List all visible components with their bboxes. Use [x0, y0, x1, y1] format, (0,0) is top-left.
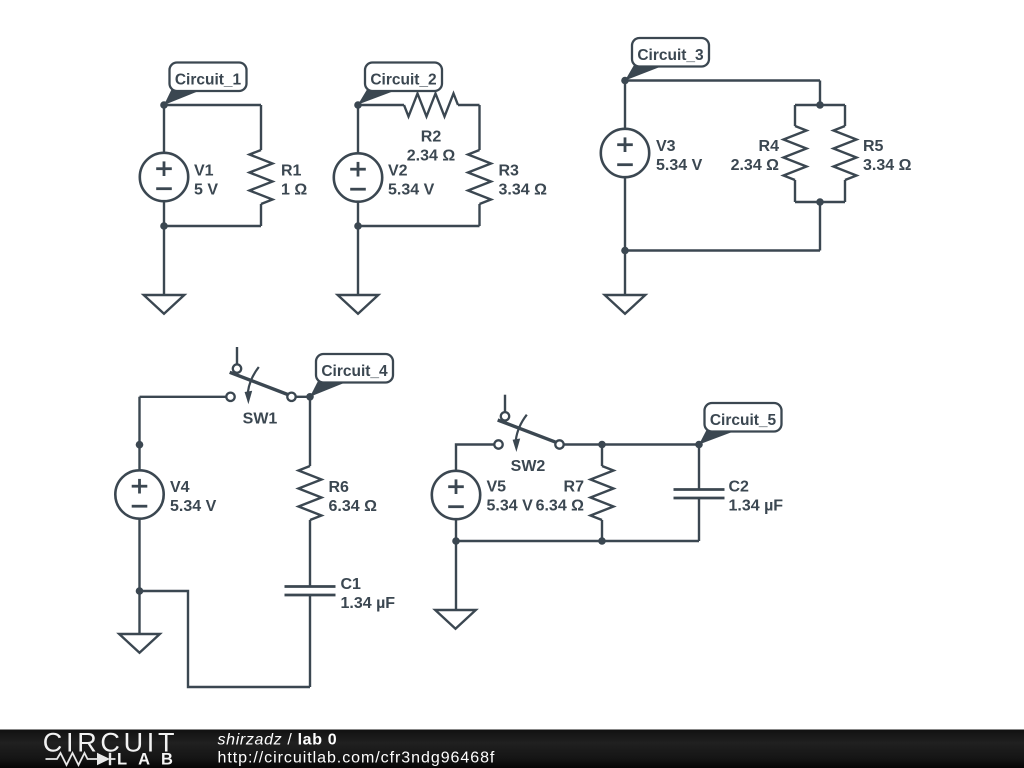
svg-text:SW2: SW2: [511, 458, 546, 475]
wire c3 R4 stub bot: [794, 180, 796, 202]
svg-text:3.34 Ω: 3.34 Ω: [863, 157, 912, 174]
svg-text:R2: R2: [421, 128, 442, 145]
wire c3 left upper: [624, 81, 626, 130]
wire c3 right riser: [819, 202, 821, 251]
svg-text:6.34 Ω: 6.34 Ω: [536, 498, 585, 515]
svg-text:3.34 Ω: 3.34 Ω: [499, 182, 548, 199]
switch SW2: [494, 395, 563, 476]
voltage source V4: [115, 470, 163, 518]
label C2 value: [729, 479, 784, 515]
wire c1 bottom: [164, 225, 261, 227]
svg-text:C2: C2: [729, 479, 750, 496]
wire c4 below C1: [309, 595, 311, 687]
wire c2 left upper: [357, 105, 359, 154]
svg-text:R4: R4: [759, 138, 780, 155]
resistor R5: [834, 126, 857, 180]
wire c5 gnd lead: [455, 541, 457, 610]
wire c3 par bottom: [795, 201, 845, 203]
wire c5 C2 lead top: [698, 445, 700, 490]
resistor R1: [250, 150, 273, 204]
svg-text:http://circuitlab.com/cfr3ndg9: http://circuitlab.com/cfr3ndg96468f: [218, 750, 496, 767]
svg-text:LAB: LAB: [117, 751, 184, 768]
wire c5 below V5: [455, 519, 457, 541]
svg-text:R3: R3: [499, 163, 520, 180]
wire c4 sw to node: [296, 396, 310, 398]
junction c5 node top right: [695, 441, 703, 449]
net label callout Circuit_5: [699, 403, 782, 445]
label R3 value: [499, 163, 548, 199]
wire c1 left lower: [163, 201, 165, 226]
label R6 value: [329, 479, 378, 515]
svg-text:Circuit_1: Circuit_1: [175, 72, 242, 89]
net label callout Circuit_1: [164, 63, 247, 106]
svg-text:V5: V5: [487, 479, 507, 496]
capacitor C1: [285, 587, 336, 596]
wire c4 R6 to C1: [309, 520, 311, 587]
wire c3 R5 stub top: [844, 105, 846, 126]
wire c1 left upper: [163, 105, 165, 153]
wire c4 bottom route: [140, 591, 311, 687]
svg-text:R5: R5: [863, 138, 884, 155]
wire c1 right lower: [260, 204, 262, 226]
wire c4 right upper: [309, 397, 311, 466]
resistor R2: [404, 94, 458, 117]
wire c5 C2 lead bot: [698, 498, 700, 541]
voltage source V1: [140, 153, 188, 201]
junction c3 node par top: [816, 101, 824, 109]
junction c5 node bot left: [452, 537, 460, 545]
label V1 value: [194, 163, 218, 199]
junction c3 node top: [621, 77, 629, 85]
ground GND4: [119, 634, 160, 653]
net label callout Circuit_4: [310, 354, 393, 397]
junction c1 node bottom: [160, 222, 168, 230]
label R4 value: [731, 138, 780, 174]
resistor R7: [591, 466, 614, 520]
wire c3 top: [625, 79, 820, 81]
svg-text:2.34 Ω: 2.34 Ω: [731, 157, 780, 174]
wire c1 right upper: [260, 105, 262, 150]
label V4 value: [170, 479, 217, 515]
svg-text:SW1: SW1: [243, 411, 278, 428]
ground GND2: [338, 295, 379, 314]
wire c5 R7 stub bot: [601, 520, 603, 541]
wire c3 gnd lead: [624, 251, 626, 296]
svg-text:C1: C1: [341, 576, 362, 593]
label V2 value: [388, 163, 435, 199]
svg-text:V2: V2: [388, 163, 408, 180]
junction c3 node bottom: [621, 247, 629, 255]
svg-text:5 V: 5 V: [194, 182, 218, 199]
svg-text:V3: V3: [656, 138, 676, 155]
wire c2 right upper: [478, 105, 480, 150]
svg-text:R1: R1: [281, 163, 302, 180]
junction c4 node bottom: [136, 587, 144, 595]
svg-text:5.34 V: 5.34 V: [170, 498, 217, 515]
svg-text:5.34 V: 5.34 V: [388, 182, 435, 199]
voltage source V2: [334, 153, 382, 201]
junction c3 node par bottom: [816, 198, 824, 206]
wire c1 gnd lead: [163, 226, 165, 295]
label R1 value: [281, 163, 307, 199]
wire c5 top right: [563, 443, 699, 445]
net label callout Circuit_2: [358, 63, 442, 105]
resistor R4: [784, 126, 807, 180]
svg-text:1.34 µF: 1.34 µF: [729, 498, 784, 515]
svg-text:Circuit_5: Circuit_5: [710, 412, 777, 429]
capacitor C2: [674, 490, 725, 499]
label R2 value: [407, 128, 456, 164]
junction c2 node top: [354, 101, 362, 109]
ground GND1: [144, 295, 185, 314]
svg-text:6.34 Ω: 6.34 Ω: [329, 498, 378, 515]
net label callout Circuit_3: [625, 38, 709, 81]
wire c3 left lower: [624, 177, 626, 251]
svg-text:Circuit_2: Circuit_2: [370, 72, 436, 89]
junction c5 node bot mid: [598, 537, 606, 545]
junction c5 node top mid: [598, 441, 606, 449]
junction c4 node sw: [306, 393, 314, 401]
wire c5 V5 to sw: [456, 445, 494, 472]
wire c2 gnd lead: [357, 226, 359, 295]
junction c1 node top: [160, 101, 168, 109]
label V5 value: [487, 479, 534, 515]
junction c2 node bottom: [354, 222, 362, 230]
svg-text:5.34 V: 5.34 V: [487, 498, 534, 515]
wire c2 top right: [458, 104, 480, 106]
wire c3 par top: [795, 104, 845, 106]
wire c3 R5 stub bot: [844, 180, 846, 202]
voltage source V3: [601, 129, 649, 177]
switch SW1: [226, 347, 295, 428]
label V3 value: [656, 138, 703, 174]
svg-text:shirzadz / lab 0: shirzadz / lab 0: [218, 732, 338, 749]
ground GND5: [435, 610, 476, 629]
svg-text:R6: R6: [329, 479, 350, 496]
logo diode: [97, 753, 116, 765]
svg-text:Circuit_3: Circuit_3: [637, 47, 704, 64]
svg-text:V4: V4: [170, 479, 190, 496]
svg-text:2.34 Ω: 2.34 Ω: [407, 147, 456, 164]
label R7 value: [536, 479, 585, 515]
svg-text:1 Ω: 1 Ω: [281, 182, 307, 199]
label R5 value: [863, 138, 912, 174]
wire c2 top left: [358, 104, 404, 106]
wire c2 bottom: [358, 225, 480, 227]
svg-text:V1: V1: [194, 163, 214, 180]
wire c3 right drop: [819, 81, 821, 106]
svg-text:R7: R7: [564, 479, 585, 496]
ground GND3: [605, 295, 646, 314]
wire c4 below V4: [138, 519, 140, 635]
logo resistor zigzag: [46, 753, 98, 765]
wire c2 left lower: [357, 202, 359, 227]
label C1 value: [341, 576, 396, 612]
wire c4 left drop: [138, 397, 140, 471]
junction c4 node left: [136, 441, 144, 449]
svg-text:1.34 µF: 1.34 µF: [341, 595, 396, 612]
voltage source V5: [432, 471, 480, 519]
resistor R3: [468, 150, 491, 204]
svg-text:Circuit_4: Circuit_4: [321, 363, 388, 380]
wire c5 R7 stub top: [601, 445, 603, 467]
wire c5 bottom: [456, 540, 699, 542]
svg-text:5.34 V: 5.34 V: [656, 157, 703, 174]
resistor R6: [299, 466, 322, 520]
wire c3 R4 stub top: [794, 105, 796, 126]
wire c4 top left: [140, 396, 227, 398]
wire c1 top: [164, 104, 261, 106]
wire c3 bottom: [625, 249, 820, 251]
wire c2 right lower: [478, 204, 480, 226]
